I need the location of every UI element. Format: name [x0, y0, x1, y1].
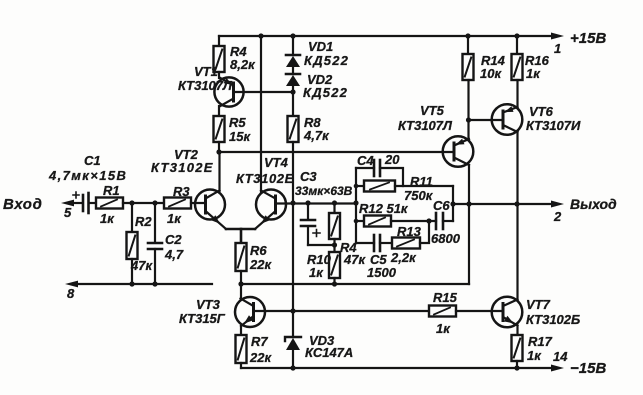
svg-text:КТ315Г: КТ315Г: [179, 311, 226, 326]
svg-text:R2: R2: [135, 214, 152, 229]
wire top +15V rail: [219, 35, 556, 37]
svg-text:22к: 22к: [249, 257, 272, 272]
wire C5 branch: [356, 242, 374, 244]
node top rail junction R16: [514, 33, 519, 38]
wire VD1 to VD2: [292, 67, 294, 74]
node NFB line R8: [290, 200, 295, 205]
svg-text:4,7к: 4,7к: [303, 128, 330, 143]
svg-text:VD1: VD1: [308, 39, 333, 54]
resistor R14: [463, 36, 474, 140]
wire VT3 base to R15: [254, 310, 430, 312]
node VT6 base junction: [466, 117, 471, 122]
svg-text:R12 51к: R12 51к: [359, 201, 409, 216]
diode VD2: [286, 74, 300, 86]
wire C4 branch: [356, 167, 374, 169]
node R6 VT3 collector: [238, 281, 243, 286]
svg-text:С6: С6: [433, 198, 450, 213]
wire R1 to R3: [123, 202, 164, 204]
wire feedback right bus: [452, 186, 454, 221]
svg-text:5: 5: [64, 205, 72, 220]
svg-text:1к: 1к: [436, 321, 451, 336]
wire R12 branch: [356, 220, 364, 222]
svg-text:R17: R17: [528, 334, 553, 349]
wire bottom -15V rail: [241, 367, 556, 369]
node R2 top: [129, 200, 134, 205]
node bottom rail junction R17: [514, 365, 519, 370]
svg-text:4,7: 4,7: [164, 247, 184, 262]
diode VD1: [286, 55, 300, 67]
svg-text:33мк×63В: 33мк×63В: [295, 184, 353, 198]
resistor R15: [429, 306, 456, 317]
transistor VT4: [255, 190, 286, 230]
wire VT6 collector to output: [516, 132, 518, 204]
node C3 top: [305, 200, 310, 205]
pin 2 arrow output: [551, 201, 564, 208]
pin 5 arrow input: [61, 200, 74, 207]
node R10 bottom: [332, 281, 337, 286]
wire C5 to R13: [380, 242, 392, 244]
svg-text:Выход: Выход: [570, 196, 617, 212]
resistor R2: [127, 232, 138, 259]
svg-text:КТ3102Е: КТ3102Е: [151, 160, 214, 175]
svg-text:10к: 10к: [480, 66, 502, 81]
node R12 R13 junction: [426, 218, 431, 223]
node bus R11 branch: [354, 184, 359, 189]
wire NFB vertical down to VD3: [292, 203, 294, 337]
node C2 top: [152, 200, 157, 205]
svg-text:+15В: +15В: [570, 30, 606, 47]
svg-text:С2: С2: [165, 232, 182, 247]
svg-text:15к: 15к: [229, 129, 251, 144]
transistor VT3: [235, 297, 265, 327]
svg-text:VT6: VT6: [529, 104, 554, 119]
transistor VT5: [443, 136, 474, 167]
wire node to VT5 base: [219, 151, 454, 153]
resistor R3: [164, 198, 191, 209]
svg-text:Вход: Вход: [3, 196, 42, 213]
resistor R12: [364, 216, 391, 227]
svg-text:8,2к: 8,2к: [230, 57, 256, 72]
svg-text:КС147А: КС147А: [305, 345, 353, 360]
resistor R1: [96, 198, 123, 209]
wire emitters to R6: [240, 229, 243, 243]
svg-text:КТ3107И: КТ3107И: [526, 118, 581, 133]
svg-text:750к: 750к: [404, 188, 434, 203]
wire VT4 base to NFB node: [276, 202, 357, 204]
wire VT1 base to VD2 junction: [235, 91, 294, 93]
resistor R17: [512, 326, 523, 369]
svg-text:VT1: VT1: [194, 64, 218, 79]
wire C4 to corner: [380, 168, 403, 186]
wire R12 to C6: [391, 220, 436, 222]
resistor R10: [329, 252, 340, 278]
svg-text:1к: 1к: [167, 211, 182, 226]
wire output to VT7 collector: [516, 204, 518, 300]
wire R2 to ground line: [131, 259, 133, 284]
wire R5 to node: [218, 142, 220, 152]
wire VT5 collector down: [468, 165, 470, 284]
transistor VT7: [492, 297, 523, 328]
capacitor C6: [436, 213, 453, 229]
svg-text:2: 2: [553, 209, 562, 224]
resistor R6: [236, 243, 247, 271]
zener diode VD3: [285, 337, 301, 368]
wire C2 drop: [154, 203, 156, 241]
wire VT6 base: [469, 119, 504, 121]
wire VT3 emitter to R7: [240, 326, 242, 335]
svg-text:VT7: VT7: [526, 297, 551, 312]
node NFB bus left top: [353, 200, 358, 205]
wire output line: [453, 203, 556, 205]
wire VT3 collector: [240, 284, 242, 299]
pin 8 arrow ground line: [65, 281, 78, 288]
svg-text:VT3: VT3: [196, 297, 221, 312]
node R9 top: [332, 200, 337, 205]
node C2 bottom: [152, 281, 157, 286]
transistor VT6: [492, 104, 523, 135]
node top rail junction R14: [465, 33, 470, 38]
resistor R13: [392, 238, 420, 249]
svg-text:−15В: −15В: [570, 360, 606, 377]
node bottom rail junction VD3: [290, 365, 295, 370]
svg-text:4,7мк×15В: 4,7мк×15В: [48, 168, 127, 183]
wire R15 to VT7 base: [456, 310, 503, 312]
svg-text:1500: 1500: [367, 265, 397, 280]
node VT5 collector output: [466, 201, 471, 206]
svg-text:1к: 1к: [100, 211, 115, 226]
svg-text:КТ3102Б: КТ3102Б: [526, 312, 580, 327]
svg-text:КД522: КД522: [304, 53, 349, 68]
resistor R16: [512, 36, 523, 107]
svg-text:R7: R7: [251, 334, 268, 349]
wire R3 to VT2 base: [191, 202, 205, 204]
transistor VT1: [214, 72, 243, 116]
svg-text:КТ3102Е: КТ3102Е: [236, 171, 294, 186]
svg-text:1к: 1к: [527, 348, 542, 363]
svg-text:С1: С1: [84, 153, 101, 168]
svg-text:20: 20: [384, 152, 400, 167]
wire C2 to ground line: [154, 249, 156, 284]
svg-text:1к: 1к: [309, 265, 324, 280]
svg-text:R5: R5: [229, 115, 246, 130]
wire VD2 to R8: [292, 86, 294, 116]
svg-text:С3: С3: [300, 169, 317, 184]
svg-text:R1: R1: [103, 183, 120, 198]
capacitor C1: [73, 192, 89, 213]
svg-text:1: 1: [554, 41, 561, 56]
svg-text:R15: R15: [433, 290, 458, 305]
node top rail junction VD1 line: [290, 33, 295, 38]
svg-text:47к: 47к: [343, 252, 366, 267]
wire emitters join: [226, 228, 255, 231]
node VD2 VT1 base junction: [290, 89, 295, 94]
svg-text:R3: R3: [173, 184, 190, 199]
svg-text:22к: 22к: [249, 350, 272, 365]
capacitor C3: [301, 203, 335, 245]
wire R9 top: [333, 203, 335, 213]
svg-text:6800: 6800: [431, 231, 461, 246]
node VT6 VT7 output: [514, 201, 519, 206]
svg-text:2,2к: 2,2к: [390, 250, 417, 265]
wire VT4 collector to rail: [260, 36, 262, 192]
resistor R9: [329, 213, 340, 239]
wire feedback left bus: [355, 168, 357, 243]
wire R8 down to NFB node: [292, 142, 294, 203]
svg-text:1к: 1к: [526, 66, 541, 81]
node bus R12 branch: [354, 219, 359, 224]
wire input to C1: [70, 202, 81, 204]
wire R7 to rail: [240, 363, 242, 368]
wire bootstrap line to VT5 collector: [241, 283, 469, 285]
node VD3 VT3 base: [290, 308, 295, 313]
svg-text:КД522: КД522: [303, 85, 348, 100]
node R2 bottom: [129, 281, 134, 286]
svg-text:VT5: VT5: [420, 103, 445, 118]
resistor R8: [288, 116, 299, 142]
svg-text:С4: С4: [357, 153, 374, 168]
svg-text:R13: R13: [397, 224, 422, 239]
svg-text:8: 8: [67, 286, 75, 301]
resistor R5: [214, 116, 225, 142]
capacitor C4: [374, 160, 380, 176]
wire R10 to output bus: [333, 278, 335, 284]
resistor R7: [236, 335, 247, 363]
wire ground line: [74, 283, 212, 285]
svg-text:VT4: VT4: [264, 155, 289, 170]
capacitor C5: [374, 235, 380, 251]
svg-text:КТ3107Л: КТ3107Л: [178, 78, 233, 93]
wire C1 to R1: [90, 202, 97, 204]
svg-text:14: 14: [553, 349, 568, 364]
svg-text:47к: 47к: [130, 258, 153, 273]
wire rail to VD1: [292, 36, 294, 55]
wire R6 to output bus line: [240, 271, 242, 284]
wire R9 to R10: [333, 239, 335, 252]
transistor VT2: [195, 152, 226, 229]
node top rail junction VT4 collector line: [258, 33, 263, 38]
pin 14 arrow -15V: [551, 365, 564, 372]
pin 1 arrow +15V: [551, 33, 564, 40]
svg-text:R11: R11: [410, 174, 433, 189]
node R9 R10 C3 junction: [332, 242, 337, 247]
wire R13 up to R12 junction: [420, 221, 429, 243]
wire R2 drop: [131, 203, 133, 232]
node VT1 collector / VT2 collector / VT5 base: [216, 149, 221, 154]
resistor R4: [214, 36, 225, 72]
svg-text:R6: R6: [250, 243, 267, 258]
node right bus output: [450, 201, 455, 206]
svg-text:КТ3107Л: КТ3107Л: [398, 118, 453, 133]
resistor R11: [356, 181, 453, 192]
capacitor C2: [148, 243, 162, 249]
